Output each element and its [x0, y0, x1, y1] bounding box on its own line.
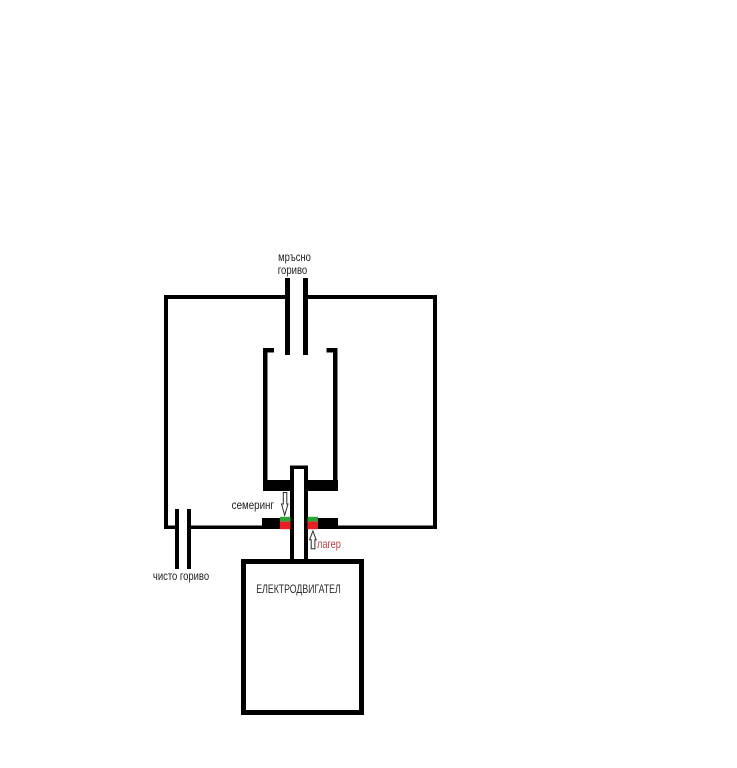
- electric motor box: [244, 562, 362, 713]
- label "мръсно гориво" (dirty fuel): [263, 251, 327, 263]
- shaft: [290, 466, 308, 565]
- clean fuel outlet pipe: [175, 509, 191, 569]
- dirty fuel inlet pipe: [285, 278, 308, 355]
- label "семеринг" (seal): [209, 499, 274, 511]
- down arrow pointing to seal: [282, 493, 289, 516]
- pump housing (open-top vessel): [263, 348, 338, 491]
- label "чисто гориво" (clean fuel): [150, 570, 213, 582]
- fuel tank (outer box): [164, 295, 437, 529]
- label "лагер" (bearing): [317, 538, 341, 550]
- mechanical seal blocks: [262, 517, 338, 529]
- up arrow pointing to bearing: [310, 531, 317, 549]
- label "ЕЛЕКТРОДВИГАТЕЛ" (electric motor): [256, 584, 340, 596]
